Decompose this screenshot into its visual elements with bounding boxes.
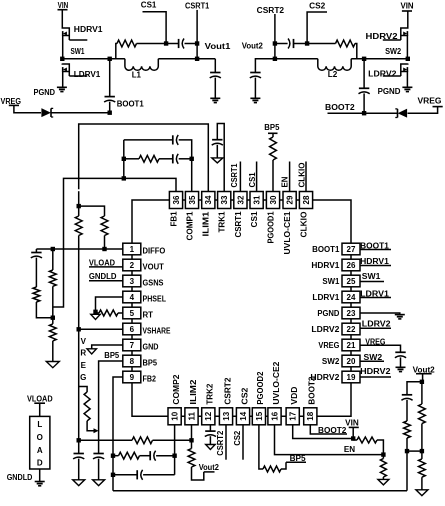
svg-text:BP5: BP5 xyxy=(104,351,119,360)
pin 36 FB1 (top) xyxy=(169,192,182,209)
junction SW1 at BOOT1 tap xyxy=(108,57,112,61)
junction branch2 left xyxy=(111,454,115,458)
wire LOAD to ground xyxy=(39,469,41,481)
svg-text:CS1: CS1 xyxy=(248,172,257,188)
svg-text:CLKIO: CLKIO xyxy=(299,212,308,238)
pin 13 CSRT2 (bottom) xyxy=(219,408,232,425)
pin 34 ILIM1 (top) xyxy=(202,192,215,209)
svg-text:27: 27 xyxy=(347,245,356,254)
resistor R-vout2-esr xyxy=(404,421,411,438)
svg-text:VDD: VDD xyxy=(290,386,299,404)
junction CSRT2 tap xyxy=(273,41,277,45)
resistor R-en-top xyxy=(357,437,377,443)
capacitor C-out1 xyxy=(214,59,216,72)
wire R5 to junction xyxy=(36,302,52,318)
wire branch2 left lead xyxy=(113,455,119,457)
resistor R-pgood2 xyxy=(263,466,281,472)
bottom bus wire xyxy=(113,490,407,492)
wire comp1 top branch right xyxy=(179,140,192,192)
junction PHSEL/RT ground node xyxy=(93,310,97,314)
wire EN net stub pin29 xyxy=(289,162,291,192)
svg-text:L: L xyxy=(37,420,42,429)
resistor R-ilim2 xyxy=(132,437,153,444)
wire COMP2 pin10 down xyxy=(174,425,176,475)
wire C-sense2 to CSRT2 node xyxy=(275,43,288,45)
wire C-fb2a to pin10 rail xyxy=(156,455,175,457)
svg-text:HDRV2: HDRV2 xyxy=(360,367,391,376)
wire C-sense1 to CSRT1 node xyxy=(185,43,198,45)
svg-text:GSNS: GSNS xyxy=(143,279,165,288)
pin 18 BOOT2 (bottom) xyxy=(304,408,317,425)
svg-text:BOOT1: BOOT1 xyxy=(312,245,340,254)
wire CLKIO net stub pin28 xyxy=(305,162,307,192)
pin 16 UVLO-CE2 (bottom) xyxy=(268,408,281,425)
svg-text:PGND: PGND xyxy=(34,88,56,97)
svg-text:33: 33 xyxy=(220,195,229,204)
svg-text:VREG: VREG xyxy=(318,341,339,350)
svg-text:EN: EN xyxy=(344,445,355,454)
ground C-trk1 xyxy=(212,158,223,163)
wire VREG to diode xyxy=(14,105,41,112)
svg-text:25: 25 xyxy=(347,277,356,286)
svg-text:19: 19 xyxy=(347,373,356,382)
svg-text:SW2: SW2 xyxy=(322,357,340,366)
junction CS1 tap xyxy=(164,41,168,45)
diode D1 VREG to BOOT1 xyxy=(42,109,51,117)
svg-text:TRK1: TRK1 xyxy=(218,211,227,233)
wire comp1 mid branch xyxy=(124,158,139,160)
svg-text:COMP2: COMP2 xyxy=(172,374,181,405)
svg-text:LDRV1: LDRV1 xyxy=(74,70,101,79)
svg-text:RT: RT xyxy=(143,311,154,320)
svg-text:VLOAD: VLOAD xyxy=(27,395,53,404)
ground PHSEL xyxy=(91,314,101,319)
pin 5 RT (left) xyxy=(123,307,141,319)
pin 31 CS1 (top) xyxy=(250,192,263,209)
wire CS1 net stub pin31 xyxy=(256,162,258,192)
wire ILIM2 feed from VREG xyxy=(79,439,132,441)
wire R-ilim2 to pin11 xyxy=(153,439,192,441)
svg-text:HDRV1: HDRV1 xyxy=(360,257,389,266)
svg-text:ILIM2: ILIM2 xyxy=(189,379,198,405)
capacitor BOOT2 xyxy=(363,59,365,88)
wire CSRT1 to Vout1 node xyxy=(196,44,198,59)
capacitor C-fb1 (top branch) xyxy=(172,135,174,144)
pin 21 VREG (right) xyxy=(342,339,360,351)
wire divider top to R4 xyxy=(79,206,105,216)
wire CSRT1 net stub pin32 xyxy=(239,162,241,192)
wire R6 leads xyxy=(52,249,54,270)
wire esr to junction xyxy=(406,438,408,451)
wire VREG to R-bp5 jog xyxy=(79,387,87,393)
wire FB1 to pin36 xyxy=(124,178,176,191)
wire VREG rail segment xyxy=(78,191,80,206)
junction BOOT2 cap bottom xyxy=(362,111,366,115)
wire VDD pin17 down xyxy=(293,425,354,439)
pin 12 TRK2 (bottom) xyxy=(202,408,215,425)
svg-text:29: 29 xyxy=(286,195,295,204)
svg-text:GND: GND xyxy=(143,343,159,352)
svg-text:20: 20 xyxy=(347,357,356,366)
junction divider mid xyxy=(51,316,55,320)
svg-text:D: D xyxy=(37,459,43,468)
resistor R7 (to ground) xyxy=(49,324,56,341)
svg-text:VIN: VIN xyxy=(58,1,69,10)
pin 2 VOUT (left) xyxy=(123,259,141,271)
inductor L1 xyxy=(125,59,158,71)
svg-text:V: V xyxy=(81,337,87,346)
pin 15 PGOOD2 (bottom) xyxy=(252,408,265,425)
wire R-fb2a to C-fb2a xyxy=(140,455,150,457)
svg-text:CSRT1: CSRT1 xyxy=(230,163,239,187)
wire CS2 label to tap xyxy=(307,12,327,44)
wire VLOAD to LOAD xyxy=(39,403,41,416)
svg-text:HDRV1: HDRV1 xyxy=(311,261,340,270)
junction SW2 at BOOT2 tap xyxy=(362,57,366,61)
resistor R-en-bot xyxy=(380,459,386,478)
resistor R-ilim2-bot xyxy=(188,449,195,468)
wire Vout2 to C-out branch xyxy=(407,382,422,395)
resistor R-vreg-bp5 xyxy=(84,392,90,421)
wire HDRV2 pin19 xyxy=(360,376,391,378)
svg-text:31: 31 xyxy=(253,195,262,204)
resistor R-div-top xyxy=(419,404,426,424)
resistor R-fb2a xyxy=(119,452,140,459)
capacitor C-vreg1 xyxy=(78,440,80,453)
junction R4 at DIFFO xyxy=(102,247,106,251)
wire CS1 node to C-sense1 xyxy=(166,43,178,45)
wire BP5 label underline xyxy=(286,461,306,463)
pin 35 COMP1 (top) xyxy=(185,192,198,209)
wire HDRV1 pin26 xyxy=(360,265,391,267)
wire PGOOD2 pin15 down xyxy=(259,425,263,469)
svg-text:CSRT1: CSRT1 xyxy=(185,1,210,10)
capacitor C-vout2-esr xyxy=(402,394,412,396)
wire VREG pin21 xyxy=(360,345,401,352)
pin 26 HDRV1 (right) xyxy=(342,259,360,271)
svg-text:17: 17 xyxy=(289,411,298,420)
wire VIN to Q3 drain xyxy=(407,11,409,28)
svg-text:26: 26 xyxy=(347,261,356,270)
junction COMP1 rail mid xyxy=(190,157,194,161)
svg-text:L1: L1 xyxy=(132,71,142,80)
wire BOOT1 pin27 xyxy=(360,249,391,251)
wire DIFFO pin1 xyxy=(36,248,122,250)
resistor R-sense2 xyxy=(336,40,356,47)
junction COMP2 mid xyxy=(172,454,176,458)
pin 23 PGND (right) xyxy=(342,307,360,319)
capacitor C-fb2a xyxy=(149,451,151,460)
arrow into BP5 rail xyxy=(94,428,99,433)
svg-text:15: 15 xyxy=(255,411,264,420)
svg-text:E: E xyxy=(81,361,87,370)
wire SW2 pin20 xyxy=(360,360,384,362)
svg-text:Vout1: Vout1 xyxy=(205,42,231,51)
wire BP5 to R and R to pin30 xyxy=(272,133,274,137)
svg-text:Vout2: Vout2 xyxy=(242,41,264,50)
wire VIN terminal to VDD xyxy=(352,427,354,438)
wire R to CS2 node xyxy=(307,43,335,45)
junction divider top xyxy=(77,204,81,208)
svg-text:L2: L2 xyxy=(328,70,338,79)
wire comp1 top branch xyxy=(124,139,173,141)
svg-text:TRK2: TRK2 xyxy=(206,383,215,405)
wire Vout2 to R-div branch xyxy=(421,382,423,404)
svg-text:10: 10 xyxy=(171,411,180,420)
wire LDRV1 pin24 xyxy=(360,297,391,299)
pin 29 UVLO-CE1 (top) xyxy=(283,192,296,209)
junction DIFFO tap xyxy=(51,247,55,251)
transistor Q3 HDRV2 high-side NFET xyxy=(401,28,408,41)
pin 30 PGOOD1 (top) xyxy=(266,192,279,209)
svg-text:VLOAD: VLOAD xyxy=(89,258,115,267)
svg-text:G: G xyxy=(80,373,86,382)
svg-text:BP5: BP5 xyxy=(143,359,158,368)
svg-text:CS2: CS2 xyxy=(309,2,326,11)
resistor R-div-bot xyxy=(419,459,426,477)
svg-text:VREG: VREG xyxy=(1,97,22,106)
junction CSRT1 tap xyxy=(195,41,199,45)
wire VREG rail down xyxy=(78,329,80,440)
ground C-vreg2 xyxy=(396,366,406,368)
wire PHSEL pin4 to ground xyxy=(96,297,123,312)
ground LOAD xyxy=(35,481,45,483)
svg-text:HDRV2: HDRV2 xyxy=(366,32,399,41)
svg-text:BOOT2: BOOT2 xyxy=(325,103,355,112)
svg-text:SW1: SW1 xyxy=(362,272,381,281)
wire FB2 pin9 down xyxy=(113,377,123,491)
wire EN node to R xyxy=(382,455,384,459)
svg-text:O: O xyxy=(37,433,43,442)
wire VIN to Q1 drain xyxy=(61,10,63,28)
wire CS1 label to tap xyxy=(143,12,167,44)
svg-text:HDRV1: HDRV1 xyxy=(74,25,103,34)
svg-text:2: 2 xyxy=(130,261,135,270)
svg-text:14: 14 xyxy=(239,411,248,420)
svg-text:CSRT2: CSRT2 xyxy=(223,377,232,405)
svg-text:SW1: SW1 xyxy=(322,277,340,286)
wire R7 to ground xyxy=(52,341,54,362)
svg-text:VIN: VIN xyxy=(401,2,414,11)
svg-text:CS2: CS2 xyxy=(240,387,249,405)
capacitor BOOT1 xyxy=(109,59,111,97)
svg-text:24: 24 xyxy=(347,293,356,302)
wire R-en to EN node xyxy=(377,440,383,455)
wire CS2 node to C-sense2 xyxy=(294,43,307,45)
svg-text:16: 16 xyxy=(270,411,279,420)
capacitor C-diff (left chain) xyxy=(31,252,41,254)
svg-text:30: 30 xyxy=(269,195,278,204)
svg-text:3: 3 xyxy=(130,277,135,286)
capacitor C-trk2 xyxy=(205,430,215,432)
svg-text:BOOT2: BOOT2 xyxy=(318,426,347,435)
svg-text:36: 36 xyxy=(172,195,181,204)
svg-text:LDRV2: LDRV2 xyxy=(311,325,340,334)
svg-text:13: 13 xyxy=(222,411,231,420)
svg-text:PGND: PGND xyxy=(317,309,339,318)
svg-text:28: 28 xyxy=(302,195,311,204)
svg-text:VIN: VIN xyxy=(345,419,359,428)
diode D2 VREG to BOOT2 xyxy=(398,109,407,117)
svg-text:PHSEL: PHSEL xyxy=(143,295,167,304)
resistor R4 (right divider) xyxy=(101,216,108,236)
svg-text:VREG: VREG xyxy=(418,97,442,106)
wire Vout2 to C-out2 xyxy=(255,59,275,72)
resistor R-sense1 xyxy=(117,40,137,47)
junction branch3 left xyxy=(111,473,115,477)
svg-text:Vout2: Vout2 xyxy=(199,463,220,472)
transistor Q2 LDRV1 low-side NFET xyxy=(62,64,69,77)
svg-text:LDRV2: LDRV2 xyxy=(362,320,391,329)
junction CS2 tap xyxy=(305,41,309,45)
wire R to CS1 node xyxy=(137,43,167,45)
wire R-comp1 to C-comp1 xyxy=(159,158,172,160)
svg-text:35: 35 xyxy=(188,195,197,204)
ground GND pin7 xyxy=(87,349,97,354)
capacitor C-bp5 xyxy=(93,453,103,455)
wire comp1 left rail xyxy=(123,140,125,179)
pin 19 HDRV2 (right) xyxy=(342,371,360,383)
pin 22 LDRV2 (right) xyxy=(342,323,360,335)
svg-text:VOUT: VOUT xyxy=(143,263,164,272)
wire ILIM2 pin11 down xyxy=(191,425,193,441)
pin 17 VDD (bottom) xyxy=(286,408,299,425)
svg-text:PGND: PGND xyxy=(378,87,401,96)
wire RC sense tap phase2 xyxy=(355,44,357,59)
svg-text:VSHARE: VSHARE xyxy=(143,327,172,336)
pin 11 ILIM2 (bottom) xyxy=(185,408,198,425)
wire VLOAD to pin2 xyxy=(89,266,123,268)
pin 4 PHSEL (left) xyxy=(123,291,141,303)
svg-text:CSRT2: CSRT2 xyxy=(257,6,285,15)
svg-text:4: 4 xyxy=(130,293,135,302)
junction VSHARE at VREG rail xyxy=(77,327,81,331)
wire diode to BOOT1 cap xyxy=(52,112,110,114)
wire VIN to R-en xyxy=(353,439,357,441)
svg-text:R: R xyxy=(80,349,86,358)
svg-text:EN: EN xyxy=(281,176,290,187)
svg-text:A: A xyxy=(37,446,43,455)
svg-text:1: 1 xyxy=(130,245,135,254)
svg-text:5: 5 xyxy=(130,309,135,318)
transistor Q1 HDRV1 high-side NFET xyxy=(62,28,69,41)
block LOAD xyxy=(30,416,50,469)
ground PGND phase1 xyxy=(57,86,67,88)
pin 8 BP5 (left) xyxy=(123,355,141,367)
junction SW1 at Q1/Q2 xyxy=(60,57,64,61)
svg-text:23: 23 xyxy=(347,309,356,318)
wire R to Vout2 label xyxy=(192,467,204,480)
svg-text:32: 32 xyxy=(236,195,245,204)
wire FB1 node to left xyxy=(53,178,124,307)
svg-text:PGOOD1: PGOOD1 xyxy=(266,211,275,244)
ground C-out2 xyxy=(250,97,260,99)
wire L1 to Vout1 xyxy=(158,58,215,60)
wire Vout2 terminal down xyxy=(422,374,424,382)
ground C-trk2 xyxy=(206,445,216,450)
wire VREG to diode phase2 xyxy=(408,107,438,114)
svg-text:34: 34 xyxy=(204,195,213,204)
svg-text:LDRV1: LDRV1 xyxy=(312,293,340,302)
pin 14 CS2 (bottom) xyxy=(236,408,249,425)
wire RT to pin5 xyxy=(118,312,123,314)
wire GND pin7 left xyxy=(92,345,123,349)
svg-text:CS2: CS2 xyxy=(233,430,242,446)
capacitor C-out2 xyxy=(250,72,260,74)
junction divider right xyxy=(420,449,424,453)
wire CS2 net stub pin14 xyxy=(242,425,244,460)
wire R-pgood2 to BP5 xyxy=(281,462,286,469)
svg-text:PGOOD2: PGOOD2 xyxy=(256,371,265,405)
resistor R-RT xyxy=(99,310,118,316)
svg-text:DIFFO: DIFFO xyxy=(143,247,166,256)
wire LDRV2 pin22 xyxy=(360,327,391,329)
svg-text:8: 8 xyxy=(130,357,135,366)
resistor R6 (mid chain) xyxy=(49,270,56,286)
ground PGND pin23 xyxy=(395,314,405,316)
pin 24 LDRV1 (right) xyxy=(342,291,360,303)
svg-text:12: 12 xyxy=(204,411,213,420)
svg-text:7: 7 xyxy=(130,341,135,350)
wire CSRT2 net stub pin13 xyxy=(225,425,227,460)
IC U1 outline xyxy=(132,200,351,416)
svg-text:GNDLD: GNDLD xyxy=(7,473,33,482)
pin 10 COMP2 (bottom) xyxy=(168,408,181,425)
svg-text:9: 9 xyxy=(130,373,135,382)
wire C-comp1 to COMP1 rail xyxy=(179,158,192,160)
resistor R5 (left chain) xyxy=(33,287,40,302)
wire RC sense tap phase1 xyxy=(116,44,117,59)
capacitor C-sense2 xyxy=(293,39,295,48)
wire ILIM2 node to R xyxy=(191,440,193,448)
pin 20 SW2 (right) xyxy=(342,355,360,367)
wire Vout2 to L2 xyxy=(275,58,318,60)
svg-text:21: 21 xyxy=(347,341,356,350)
svg-text:BP5: BP5 xyxy=(264,123,280,132)
ground C-out1 xyxy=(210,97,220,99)
wire branch3 left lead xyxy=(113,474,137,476)
svg-text:FB1: FB1 xyxy=(169,211,178,227)
resistor R-pgood1 pullup xyxy=(270,137,277,160)
svg-text:COMP1: COMP1 xyxy=(185,211,194,241)
pin 25 SW1 (right) xyxy=(342,275,360,287)
svg-text:11: 11 xyxy=(187,412,196,421)
resistor R-comp1 xyxy=(139,155,159,162)
wire left chain top xyxy=(35,249,37,252)
pin 33 TRK1 (top) xyxy=(218,192,231,209)
capacitor C-vreg2 xyxy=(395,351,405,353)
wire ILIM1 pin34 up and left xyxy=(79,124,209,192)
junction SW2 at Q3/Q4 xyxy=(406,57,410,61)
inductor L2 xyxy=(318,59,351,71)
wire SW2 node xyxy=(351,58,408,60)
pin 9 FB2 (left) xyxy=(123,371,141,383)
wire Vout2 label underline xyxy=(204,471,215,473)
svg-text:GNDLD: GNDLD xyxy=(89,272,117,281)
ground R-div-bot xyxy=(416,490,428,496)
transistor Q4 LDRV2 low-side NFET xyxy=(401,64,408,77)
svg-text:CSRT2: CSRT2 xyxy=(216,430,225,456)
wire SW1 pin25 xyxy=(360,281,384,283)
pin 32 CSRT1 (top) xyxy=(234,192,247,209)
ground divider xyxy=(46,362,59,368)
svg-text:CS1: CS1 xyxy=(141,1,157,10)
svg-text:BOOT1: BOOT1 xyxy=(117,100,145,109)
ground C-bp5 xyxy=(93,480,105,486)
wire divider to bottom bus xyxy=(406,451,408,491)
wire CSRT2 to Vout2 node xyxy=(274,44,276,59)
junction ILIM2 node xyxy=(189,438,193,442)
